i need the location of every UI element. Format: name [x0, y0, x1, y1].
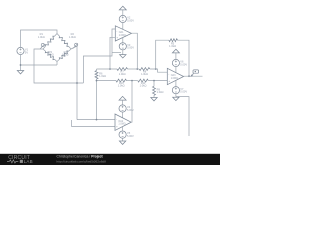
- node bridge right column tap: [76, 82, 78, 84]
- resistor R9: [153, 86, 164, 95]
- node row2 R9 junction: [153, 80, 155, 82]
- ground G3: [119, 141, 125, 144]
- wire row1 rail right: [150, 69, 167, 72]
- wire OA1 output: [132, 33, 138, 69]
- power flag F3: [172, 49, 179, 59]
- wire V2 to OA1 VS+: [122, 23, 124, 30]
- wire OA3 output: [184, 75, 203, 77]
- wire row2 rail: [97, 80, 117, 82]
- voltage source V4: [119, 105, 134, 112]
- svg-text:1.0kΩ: 1.0kΩ: [140, 84, 147, 88]
- wire OA2 VS- to V5: [122, 127, 124, 131]
- variable mark left vertex: [40, 43, 44, 48]
- node row1 OA1 minus junction: [109, 68, 111, 70]
- svg-text:1.0MΩ: 1.0MΩ: [119, 34, 126, 37]
- wire bridge bottom stub: [56, 62, 58, 66]
- wire OA2 minus input: [77, 119, 115, 121]
- resistor R3: [43, 49, 57, 62]
- svg-text:1.0kΩ: 1.0kΩ: [47, 53, 54, 57]
- svg-text:1.0kΩ: 1.0kΩ: [119, 72, 126, 76]
- node OA3 output junction: [188, 75, 190, 77]
- wire OA1 VS- to V3: [122, 37, 124, 42]
- svg-text:5.00V: 5.00V: [127, 46, 134, 50]
- node row2 R6 junction: [96, 80, 98, 82]
- svg-text:-: -: [168, 72, 169, 76]
- wire ground rail: [21, 64, 58, 66]
- ground G4: [173, 97, 179, 100]
- svg-text:-: -: [116, 118, 117, 122]
- node R6 OA2 junction: [96, 119, 98, 121]
- voltage source V1: [17, 47, 29, 54]
- svg-text:http://circuitlab.com/c/fwd5t3: http://circuitlab.com/c/fwd5t362u6d8: [57, 159, 107, 163]
- resistor R10: [116, 79, 127, 88]
- wire row1 rail mid: [128, 68, 140, 70]
- wire stub near V3 ground: [112, 52, 121, 54]
- wire OA2 output up: [130, 81, 133, 123]
- wire R5 right leg: [178, 40, 190, 76]
- resistor R11: [138, 79, 149, 88]
- svg-text:ChristopherCanonica / Project: ChristopherCanonica / Project: [57, 155, 104, 159]
- power flag F1: [119, 6, 126, 15]
- resistor R5: [169, 39, 178, 48]
- svg-text:1.0MΩ: 1.0MΩ: [118, 123, 125, 126]
- svg-text:1.0kΩ: 1.0kΩ: [157, 90, 164, 94]
- svg-text:600Ω: 600Ω: [62, 53, 68, 57]
- voltage source V2: [119, 15, 134, 22]
- wire R5 left leg: [156, 40, 169, 69]
- op-amp OA1: [115, 26, 131, 41]
- wire V5 to ground: [122, 138, 124, 141]
- svg-text:5.00V: 5.00V: [127, 108, 134, 112]
- wire V4 to OA2 VS+: [122, 112, 124, 118]
- wire R6 bottom stub: [96, 79, 98, 120]
- svg-text:1.0kΩ: 1.0kΩ: [169, 44, 176, 48]
- resistor R2: [57, 32, 76, 49]
- svg-text:1.0kΩ: 1.0kΩ: [99, 74, 106, 78]
- wire OA3 VS- to V7: [175, 81, 177, 87]
- svg-text:5.00V: 5.00V: [180, 90, 187, 94]
- wire V1 top to bridge top: [21, 30, 58, 47]
- variable mark right vertex: [73, 43, 78, 48]
- wire OA1 minus input: [110, 37, 115, 69]
- resistor R7: [117, 68, 128, 77]
- wire OA2 plus input jog: [72, 120, 116, 126]
- wire R6 top stub: [96, 69, 98, 71]
- op-amp OA3: [167, 68, 183, 84]
- wire OA1 plus input path: [83, 29, 115, 83]
- ground G5: [151, 98, 157, 101]
- wire V6 to OA3 VS+: [175, 67, 177, 73]
- op-amp OA2: [115, 114, 131, 130]
- node row1 OA1 out junction: [136, 68, 138, 70]
- power flag F2: [119, 96, 126, 104]
- output terminal OUT: [191, 70, 199, 77]
- wire R9 bottom stub: [153, 95, 155, 97]
- wire R9 top stub: [153, 81, 155, 87]
- wire bridge right vertex column: [71, 46, 77, 120]
- wire row2 rail mid: [127, 80, 138, 82]
- wire row1 rail: [97, 68, 118, 70]
- resistor R4: [57, 49, 71, 62]
- wire row2 rail right: [149, 80, 168, 82]
- ground G2: [120, 55, 126, 58]
- svg-text:5.00V: 5.00V: [127, 18, 134, 22]
- svg-text:5V: 5V: [25, 50, 28, 54]
- wire ground stub right column: [176, 97, 189, 136]
- svg-text:1.0kΩ: 1.0kΩ: [118, 84, 125, 88]
- node V1 ground junction: [20, 64, 22, 66]
- resistor R6: [95, 71, 106, 79]
- svg-text:LAB: LAB: [24, 159, 33, 164]
- svg-text:1.0kΩ: 1.0kΩ: [38, 35, 45, 39]
- ground G1: [17, 71, 23, 74]
- wire V1 bottom stem: [20, 55, 22, 71]
- node row2 OA2 out junction: [131, 80, 133, 82]
- svg-text:-: -: [116, 29, 117, 33]
- voltage source V6: [172, 59, 187, 66]
- svg-text:1.0kΩ: 1.0kΩ: [141, 72, 148, 76]
- wire V3 to ground: [122, 50, 124, 55]
- voltage source V3: [119, 43, 134, 50]
- voltage source V7: [172, 87, 187, 94]
- resistor R8: [139, 68, 150, 77]
- svg-text:1.0kΩ: 1.0kΩ: [69, 35, 76, 39]
- svg-text:1.0MΩ: 1.0MΩ: [171, 77, 178, 80]
- node row1 R5 junction: [155, 68, 157, 70]
- wire bridge left vertex rail: [34, 49, 83, 83]
- footer branding bar: [0, 154, 220, 165]
- svg-text:5.00V: 5.00V: [180, 62, 187, 66]
- svg-text:5.00V: 5.00V: [127, 134, 134, 138]
- voltage source V5: [119, 131, 134, 138]
- wire V7 to ground stub: [175, 94, 177, 97]
- resistor R1: [38, 32, 57, 49]
